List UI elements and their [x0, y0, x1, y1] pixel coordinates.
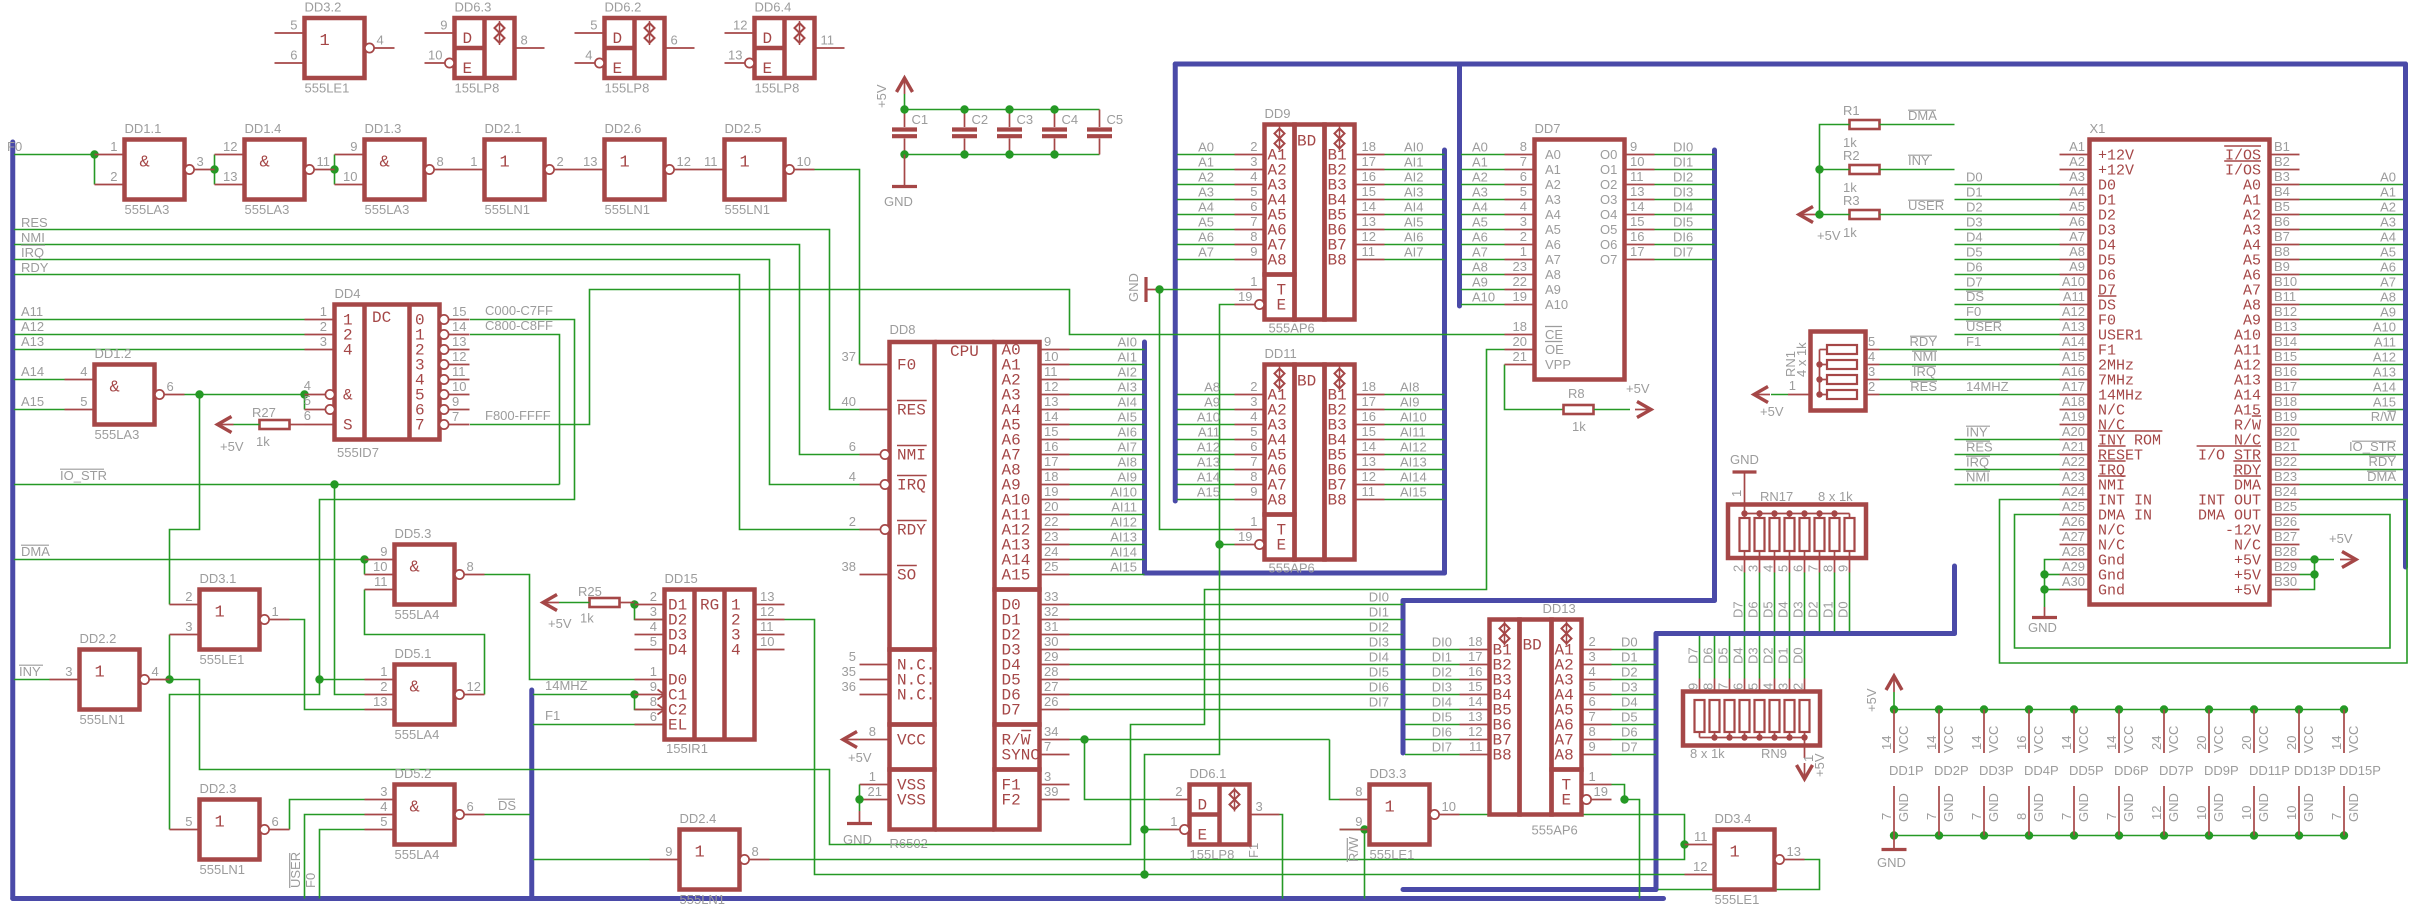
svg-text:8: 8 — [1520, 139, 1527, 154]
svg-text:DI3: DI3 — [1432, 680, 1452, 695]
wire USER vertical to DD5.2 pin4 — [305, 815, 365, 899]
svg-text:555LA3: 555LA3 — [95, 427, 140, 442]
svg-text:AI5: AI5 — [1117, 410, 1137, 425]
svg-text:A9: A9 — [2380, 305, 2396, 320]
svg-text:DD11: DD11 — [1265, 346, 1297, 361]
svg-text:24: 24 — [2149, 736, 2164, 750]
svg-text:DD3.2: DD3.2 — [305, 0, 342, 15]
svg-text:A23: A23 — [2062, 469, 2085, 484]
svg-text:A5: A5 — [1545, 222, 1561, 237]
svg-text:&: & — [343, 387, 353, 405]
svg-text:555LA3: 555LA3 — [245, 202, 290, 217]
svg-text:11: 11 — [452, 364, 466, 379]
svg-text:1: 1 — [110, 139, 117, 154]
svg-text:555LA4: 555LA4 — [395, 847, 440, 862]
+5V arrow below RN9 — [1797, 765, 1813, 779]
svg-text:F0: F0 — [1966, 304, 1981, 319]
svg-text:B3: B3 — [2274, 169, 2290, 184]
svg-text:D: D — [463, 30, 473, 48]
wire DD7 outputs to bus B3 — [1655, 154, 1715, 156]
svg-text:13: 13 — [728, 48, 742, 63]
svg-text:F0: F0 — [7, 139, 22, 154]
svg-text:DD5P: DD5P — [2069, 763, 2104, 778]
svg-text:GND: GND — [2031, 793, 2046, 822]
svg-text:1: 1 — [470, 154, 477, 169]
wire DD3.3 pin9 stub link — [1340, 829, 1365, 831]
svg-text:21: 21 — [1513, 349, 1527, 364]
svg-text:A16: A16 — [2062, 364, 2085, 379]
svg-text:AI6: AI6 — [1117, 425, 1137, 440]
svg-text:RES: RES — [21, 215, 48, 230]
svg-text:E: E — [1562, 792, 1572, 810]
bus: vertical A1 (DD9/DD11 inputs) — [1173, 64, 1178, 501]
svg-text:D1: D1 — [1966, 185, 1983, 200]
svg-text:A18: A18 — [2062, 394, 2085, 409]
svg-text:A21: A21 — [2062, 439, 2085, 454]
svg-text:3: 3 — [197, 154, 204, 169]
svg-text:40: 40 — [842, 394, 856, 409]
wire R8 to +5V — [1594, 409, 1630, 411]
bus: horizontal B6 (DD13 bottom) — [1403, 887, 1656, 892]
svg-text:DI0: DI0 — [1673, 140, 1693, 155]
svg-text:A29: A29 — [2062, 559, 2085, 574]
svg-text:A4: A4 — [1472, 200, 1488, 215]
svg-text:33: 33 — [1044, 589, 1058, 604]
svg-text:10: 10 — [1044, 349, 1058, 364]
svg-text:8: 8 — [1250, 229, 1257, 244]
svg-text:3: 3 — [1250, 394, 1257, 409]
svg-text:8: 8 — [1821, 565, 1836, 572]
svg-text:6: 6 — [1731, 683, 1746, 690]
svg-text:1: 1 — [272, 604, 279, 619]
svg-text:D2: D2 — [1966, 200, 1983, 215]
svg-text:B10: B10 — [2274, 274, 2297, 289]
svg-text:A6: A6 — [1198, 230, 1214, 245]
junction DD1.2 out — [195, 390, 203, 398]
svg-text:4: 4 — [1250, 169, 1257, 184]
svg-text:10: 10 — [797, 154, 811, 169]
svg-text:&: & — [110, 379, 120, 398]
svg-text:6: 6 — [1250, 439, 1257, 454]
bus: vertical A5 (AI outputs) — [1442, 150, 1447, 573]
svg-text:A0: A0 — [2380, 170, 2396, 185]
svg-text:AI13: AI13 — [1400, 455, 1427, 470]
svg-text:13: 13 — [1044, 394, 1058, 409]
svg-text:AI4: AI4 — [1117, 395, 1137, 410]
svg-text:AI15: AI15 — [1110, 560, 1137, 575]
junction DD1.1 out — [210, 165, 218, 173]
svg-text:A3: A3 — [2380, 215, 2396, 230]
svg-text:DD2.2: DD2.2 — [80, 631, 117, 646]
svg-text:SYNC: SYNC — [1002, 747, 1040, 765]
svg-text:12: 12 — [2149, 806, 2164, 820]
svg-text:4: 4 — [1250, 409, 1257, 424]
svg-text:O0: O0 — [1600, 147, 1617, 162]
buffer DD13 555AP6 — [1460, 601, 1612, 838]
wire R1 DMA — [1880, 124, 1955, 126]
svg-text:D4: D4 — [1966, 230, 1983, 245]
svg-text:19: 19 — [1044, 484, 1058, 499]
svg-text:555ID7: 555ID7 — [337, 445, 379, 460]
svg-text:22: 22 — [1044, 514, 1058, 529]
wire DS from DD5.2 out to bus — [485, 814, 531, 816]
wire X1 R/W to bus — [2300, 424, 2404, 426]
svg-text:6: 6 — [671, 33, 678, 48]
svg-text:A10: A10 — [1545, 297, 1568, 312]
gate DD2.6 — [575, 121, 695, 217]
svg-text:5: 5 — [650, 634, 657, 649]
svg-text:10: 10 — [2194, 806, 2209, 820]
svg-text:AI9: AI9 — [1400, 395, 1420, 410]
svg-text:14MHZ: 14MHZ — [1966, 379, 2009, 394]
wire DD15 pin12 to DD3.4 pin12 — [785, 620, 1685, 875]
svg-text:14: 14 — [1969, 736, 1984, 750]
wire F0 vertical to DD5.2 pin5 — [320, 830, 365, 899]
svg-text:DI3: DI3 — [1673, 185, 1693, 200]
svg-text:DI1: DI1 — [1673, 155, 1693, 170]
svg-text:IRQ: IRQ — [21, 245, 44, 260]
svg-text:AI12: AI12 — [1400, 440, 1427, 455]
svg-text:8: 8 — [1250, 469, 1257, 484]
wire DD13 E to bottom bus — [1625, 800, 1640, 899]
svg-text:D0: D0 — [1966, 170, 1983, 185]
svg-text:AI3: AI3 — [1117, 380, 1137, 395]
svg-text:DD4: DD4 — [335, 286, 361, 301]
svg-text:AI11: AI11 — [1111, 500, 1137, 515]
resistor R25 — [590, 598, 620, 607]
svg-text:1: 1 — [1589, 769, 1596, 784]
svg-text:A7: A7 — [2069, 229, 2085, 244]
svg-text:D0: D0 — [1836, 601, 1851, 618]
svg-text:A5: A5 — [2069, 199, 2085, 214]
svg-text:DD5.2: DD5.2 — [395, 766, 432, 781]
svg-text:A8: A8 — [1555, 747, 1574, 765]
svg-text:C2: C2 — [972, 112, 989, 127]
svg-text:DD3.4: DD3.4 — [1715, 811, 1752, 826]
bus: vertical B8 — [1952, 566, 1957, 634]
wire R3 common to +5V — [1815, 214, 1820, 216]
svg-text:7: 7 — [1879, 813, 1894, 820]
svg-text:3: 3 — [1868, 364, 1875, 379]
svg-text:D2: D2 — [1806, 601, 1821, 618]
latch DD6.2 — [575, 0, 695, 96]
svg-text:6: 6 — [1520, 169, 1527, 184]
svg-text:DI2: DI2 — [1369, 620, 1389, 635]
wires X1 +5V pins — [2300, 559, 2315, 561]
wires X1 Gnd pins — [2045, 560, 2060, 608]
svg-text:8: 8 — [650, 694, 657, 709]
svg-text:36: 36 — [842, 679, 856, 694]
svg-text:10: 10 — [1630, 154, 1644, 169]
svg-text:6: 6 — [1589, 694, 1596, 709]
GND for DD9/DD11 T pins — [1144, 277, 1147, 302]
svg-text:11: 11 — [317, 154, 331, 169]
wires RN1 to X1 rows — [1880, 349, 2060, 351]
wire X1 DMA — [2300, 484, 2404, 486]
svg-text:GND: GND — [1986, 793, 2001, 822]
svg-text:A5: A5 — [2380, 245, 2396, 260]
wire DD11 A inputs from bus A1 — [1177, 394, 1235, 396]
wire DD2.4 pin9 from bus — [533, 859, 650, 861]
svg-text:5: 5 — [1520, 184, 1527, 199]
svg-text:10: 10 — [1442, 799, 1456, 814]
latch DD6.4 — [725, 0, 845, 96]
svg-text:D: D — [763, 30, 773, 48]
svg-text:10: 10 — [373, 559, 387, 574]
svg-text:AI7: AI7 — [1117, 440, 1137, 455]
svg-text:A3: A3 — [2069, 169, 2085, 184]
svg-text:9: 9 — [380, 544, 387, 559]
GND at power table — [1893, 836, 1895, 850]
svg-text:9: 9 — [1250, 484, 1257, 499]
svg-text:8: 8 — [1355, 784, 1362, 799]
svg-text:GND: GND — [2166, 793, 2181, 822]
svg-text:4: 4 — [80, 364, 87, 379]
svg-text:C3: C3 — [1017, 112, 1034, 127]
svg-text:F0: F0 — [303, 873, 318, 888]
svg-text:A24: A24 — [2062, 484, 2085, 499]
svg-text:1k: 1k — [580, 611, 594, 626]
svg-text:1: 1 — [1250, 274, 1257, 289]
svg-text:DI3: DI3 — [1369, 635, 1389, 650]
wire DD11 E stub link — [1220, 544, 1235, 546]
svg-text:A8: A8 — [1472, 260, 1488, 275]
svg-text:7: 7 — [1716, 683, 1731, 690]
svg-text:11: 11 — [704, 154, 718, 169]
resistor R3 — [1850, 210, 1880, 219]
svg-text:D3: D3 — [1746, 647, 1761, 664]
svg-text:BD: BD — [1297, 133, 1316, 151]
svg-text:12: 12 — [1468, 724, 1482, 739]
svg-text:&: & — [140, 154, 150, 173]
svg-text:INY: INY — [19, 664, 41, 679]
svg-text:A14: A14 — [1197, 470, 1220, 485]
svg-text:A9: A9 — [2069, 259, 2085, 274]
junction RW — [1080, 735, 1088, 743]
svg-text:R6502: R6502 — [890, 836, 928, 851]
bus: vertical B3 (DI outputs of DD7) — [1712, 150, 1717, 601]
svg-text:A27: A27 — [2062, 529, 2085, 544]
svg-text:A4: A4 — [2069, 184, 2085, 199]
svg-text:A7: A7 — [1472, 245, 1488, 260]
wire DD2.5 out to CPU F0 — [815, 170, 860, 365]
svg-text:12: 12 — [733, 18, 747, 33]
svg-text:18: 18 — [1044, 469, 1058, 484]
svg-text:9: 9 — [1836, 565, 1851, 572]
bus: right vertical C1 — [2403, 64, 2408, 567]
svg-text:3: 3 — [1589, 649, 1596, 664]
junction IO_STR branch — [330, 480, 338, 488]
wire R25 left lead — [559, 602, 590, 604]
wire X1 RDY — [2300, 469, 2404, 471]
svg-text:AI11: AI11 — [1400, 425, 1426, 440]
svg-text:D7: D7 — [1731, 601, 1746, 618]
svg-text:B4: B4 — [2274, 184, 2290, 199]
svg-text:5: 5 — [1868, 334, 1875, 349]
svg-text:4: 4 — [304, 378, 311, 393]
svg-text:DD15P: DD15P — [2339, 763, 2381, 778]
svg-text:2: 2 — [650, 589, 657, 604]
gate DD3.3 — [1340, 766, 1460, 862]
svg-text:VPP: VPP — [1545, 357, 1571, 372]
svg-text:B5: B5 — [2274, 199, 2290, 214]
svg-text:39: 39 — [1044, 784, 1058, 799]
svg-text:3: 3 — [65, 664, 72, 679]
svg-text:DD5.3: DD5.3 — [395, 526, 432, 541]
svg-text:+5V: +5V — [548, 616, 572, 631]
svg-text:B22: B22 — [2274, 454, 2297, 469]
svg-text:E: E — [1277, 297, 1287, 315]
svg-text:9: 9 — [1686, 683, 1701, 690]
bus: vertical A3 (AI labels column) — [1142, 342, 1147, 573]
svg-text:3: 3 — [185, 619, 192, 634]
svg-text:A15: A15 — [21, 394, 44, 409]
wire A14 from bus to DD1.2 — [14, 379, 65, 381]
svg-text:R2: R2 — [1843, 148, 1860, 163]
svg-text:VCC: VCC — [2301, 726, 2316, 753]
gate DD1.1 — [95, 121, 215, 217]
svg-text:2: 2 — [1791, 683, 1806, 690]
svg-text:D7: D7 — [1686, 647, 1701, 664]
svg-text:2: 2 — [849, 514, 856, 529]
svg-text:13: 13 — [1362, 454, 1376, 469]
svg-text:CE: CE — [1545, 327, 1563, 342]
svg-text:AI1: AI1 — [1404, 155, 1424, 170]
svg-text:3: 3 — [1776, 683, 1791, 690]
svg-text:D6: D6 — [1966, 260, 1983, 275]
svg-text:A13: A13 — [1197, 455, 1220, 470]
latch DD6.1 — [1160, 766, 1280, 862]
svg-text:B14: B14 — [2274, 334, 2297, 349]
svg-text:8: 8 — [521, 33, 528, 48]
wire C800-C8FF from DD4 pin14 — [470, 335, 560, 485]
svg-text:7: 7 — [2104, 813, 2119, 820]
svg-text:D7: D7 — [1966, 275, 1983, 290]
svg-text:9: 9 — [350, 139, 357, 154]
svg-text:AI7: AI7 — [1404, 245, 1424, 260]
svg-text:A30: A30 — [2062, 574, 2085, 589]
svg-text:B23: B23 — [2274, 469, 2297, 484]
svg-text:A17: A17 — [2062, 379, 2085, 394]
svg-text:A14: A14 — [2062, 334, 2085, 349]
svg-text:5: 5 — [380, 814, 387, 829]
gate DD5.1 — [365, 646, 485, 742]
svg-text:AI14: AI14 — [1110, 545, 1137, 560]
svg-text:RDY: RDY — [21, 260, 49, 275]
svg-text:1: 1 — [1729, 490, 1744, 497]
svg-text:B8: B8 — [1328, 252, 1347, 270]
svg-text:11: 11 — [760, 619, 774, 634]
svg-text:1: 1 — [620, 154, 630, 173]
svg-text:19: 19 — [1238, 289, 1252, 304]
svg-text:11: 11 — [1469, 739, 1483, 754]
svg-text:E: E — [763, 60, 773, 78]
svg-text:9: 9 — [1589, 739, 1596, 754]
svg-text:1: 1 — [740, 154, 750, 173]
wire DD11 B outputs to bus A5 — [1385, 394, 1445, 396]
svg-text:AI3: AI3 — [1404, 185, 1424, 200]
svg-text:9: 9 — [1630, 139, 1637, 154]
svg-text:20: 20 — [1513, 334, 1527, 349]
wire RDY from bus — [14, 275, 860, 530]
svg-text:11: 11 — [821, 33, 835, 48]
svg-text:A7: A7 — [1198, 245, 1214, 260]
svg-text:23: 23 — [1513, 259, 1527, 274]
svg-text:+5V: +5V — [1626, 381, 1650, 396]
wire A12 from bus to DD4 — [14, 334, 305, 336]
svg-text:DI6: DI6 — [1432, 725, 1452, 740]
svg-text:10: 10 — [428, 48, 442, 63]
svg-text:O5: O5 — [1600, 222, 1617, 237]
svg-text:A8: A8 — [2380, 290, 2396, 305]
svg-text:10: 10 — [452, 379, 466, 394]
svg-text:21: 21 — [868, 784, 882, 799]
svg-text:10: 10 — [760, 634, 774, 649]
svg-text:B17: B17 — [2274, 379, 2297, 394]
svg-text:7: 7 — [1969, 813, 1984, 820]
svg-text:14: 14 — [1630, 199, 1644, 214]
wire E net from DD9/DD11 E — [1145, 305, 1235, 875]
svg-text:AI10: AI10 — [1400, 410, 1427, 425]
svg-text:15: 15 — [1044, 424, 1058, 439]
resistor R2 — [1850, 165, 1880, 174]
svg-text:18: 18 — [1362, 379, 1376, 394]
svg-text:14: 14 — [1924, 736, 1939, 750]
svg-text:3: 3 — [380, 784, 387, 799]
svg-text:O2: O2 — [1600, 177, 1617, 192]
svg-text:13: 13 — [373, 694, 387, 709]
gate DD1.4 — [215, 121, 335, 217]
junction caps rail left top — [900, 105, 908, 113]
bus: left vertical L1 — [10, 142, 15, 899]
svg-text:1: 1 — [95, 664, 105, 683]
svg-text:AI5: AI5 — [1404, 215, 1424, 230]
svg-text:A12: A12 — [1197, 440, 1220, 455]
svg-text:GND: GND — [2076, 793, 2091, 822]
svg-text:14: 14 — [2104, 736, 2119, 750]
svg-text:R1: R1 — [1843, 103, 1860, 118]
svg-text:A22: A22 — [2062, 454, 2085, 469]
svg-text:1: 1 — [1520, 244, 1527, 259]
svg-text:&: & — [410, 799, 420, 818]
svg-text:D1: D1 — [1821, 601, 1836, 618]
svg-text:555LN1: 555LN1 — [725, 202, 771, 217]
svg-text:28: 28 — [1044, 664, 1058, 679]
svg-text:GND: GND — [2211, 793, 2226, 822]
svg-text:B29: B29 — [2274, 559, 2297, 574]
svg-text:R27: R27 — [252, 405, 276, 420]
wire DMA from bus to DD5.3 — [14, 559, 365, 561]
svg-text:DD2.4: DD2.4 — [680, 811, 717, 826]
svg-text:AI8: AI8 — [1400, 380, 1420, 395]
svg-text:9: 9 — [1044, 334, 1051, 349]
svg-text:7: 7 — [1044, 739, 1051, 754]
svg-text:A0: A0 — [1472, 140, 1488, 155]
svg-text:555LA3: 555LA3 — [365, 202, 410, 217]
svg-text:O6: O6 — [1600, 237, 1617, 252]
svg-text:A4: A4 — [2380, 230, 2396, 245]
svg-text:12: 12 — [467, 679, 481, 694]
bus: horizontal A4 — [1145, 571, 1445, 576]
svg-text:AI1: AI1 — [1117, 350, 1137, 365]
svg-text:F1: F1 — [545, 708, 560, 723]
svg-text:DI7: DI7 — [1369, 695, 1389, 710]
bus: vertical B1 (DD7 address inputs) — [1457, 64, 1462, 306]
svg-text:5: 5 — [1589, 679, 1596, 694]
svg-text:D5: D5 — [1761, 601, 1776, 618]
svg-text:A0: A0 — [1545, 147, 1561, 162]
svg-text:4: 4 — [1868, 349, 1875, 364]
